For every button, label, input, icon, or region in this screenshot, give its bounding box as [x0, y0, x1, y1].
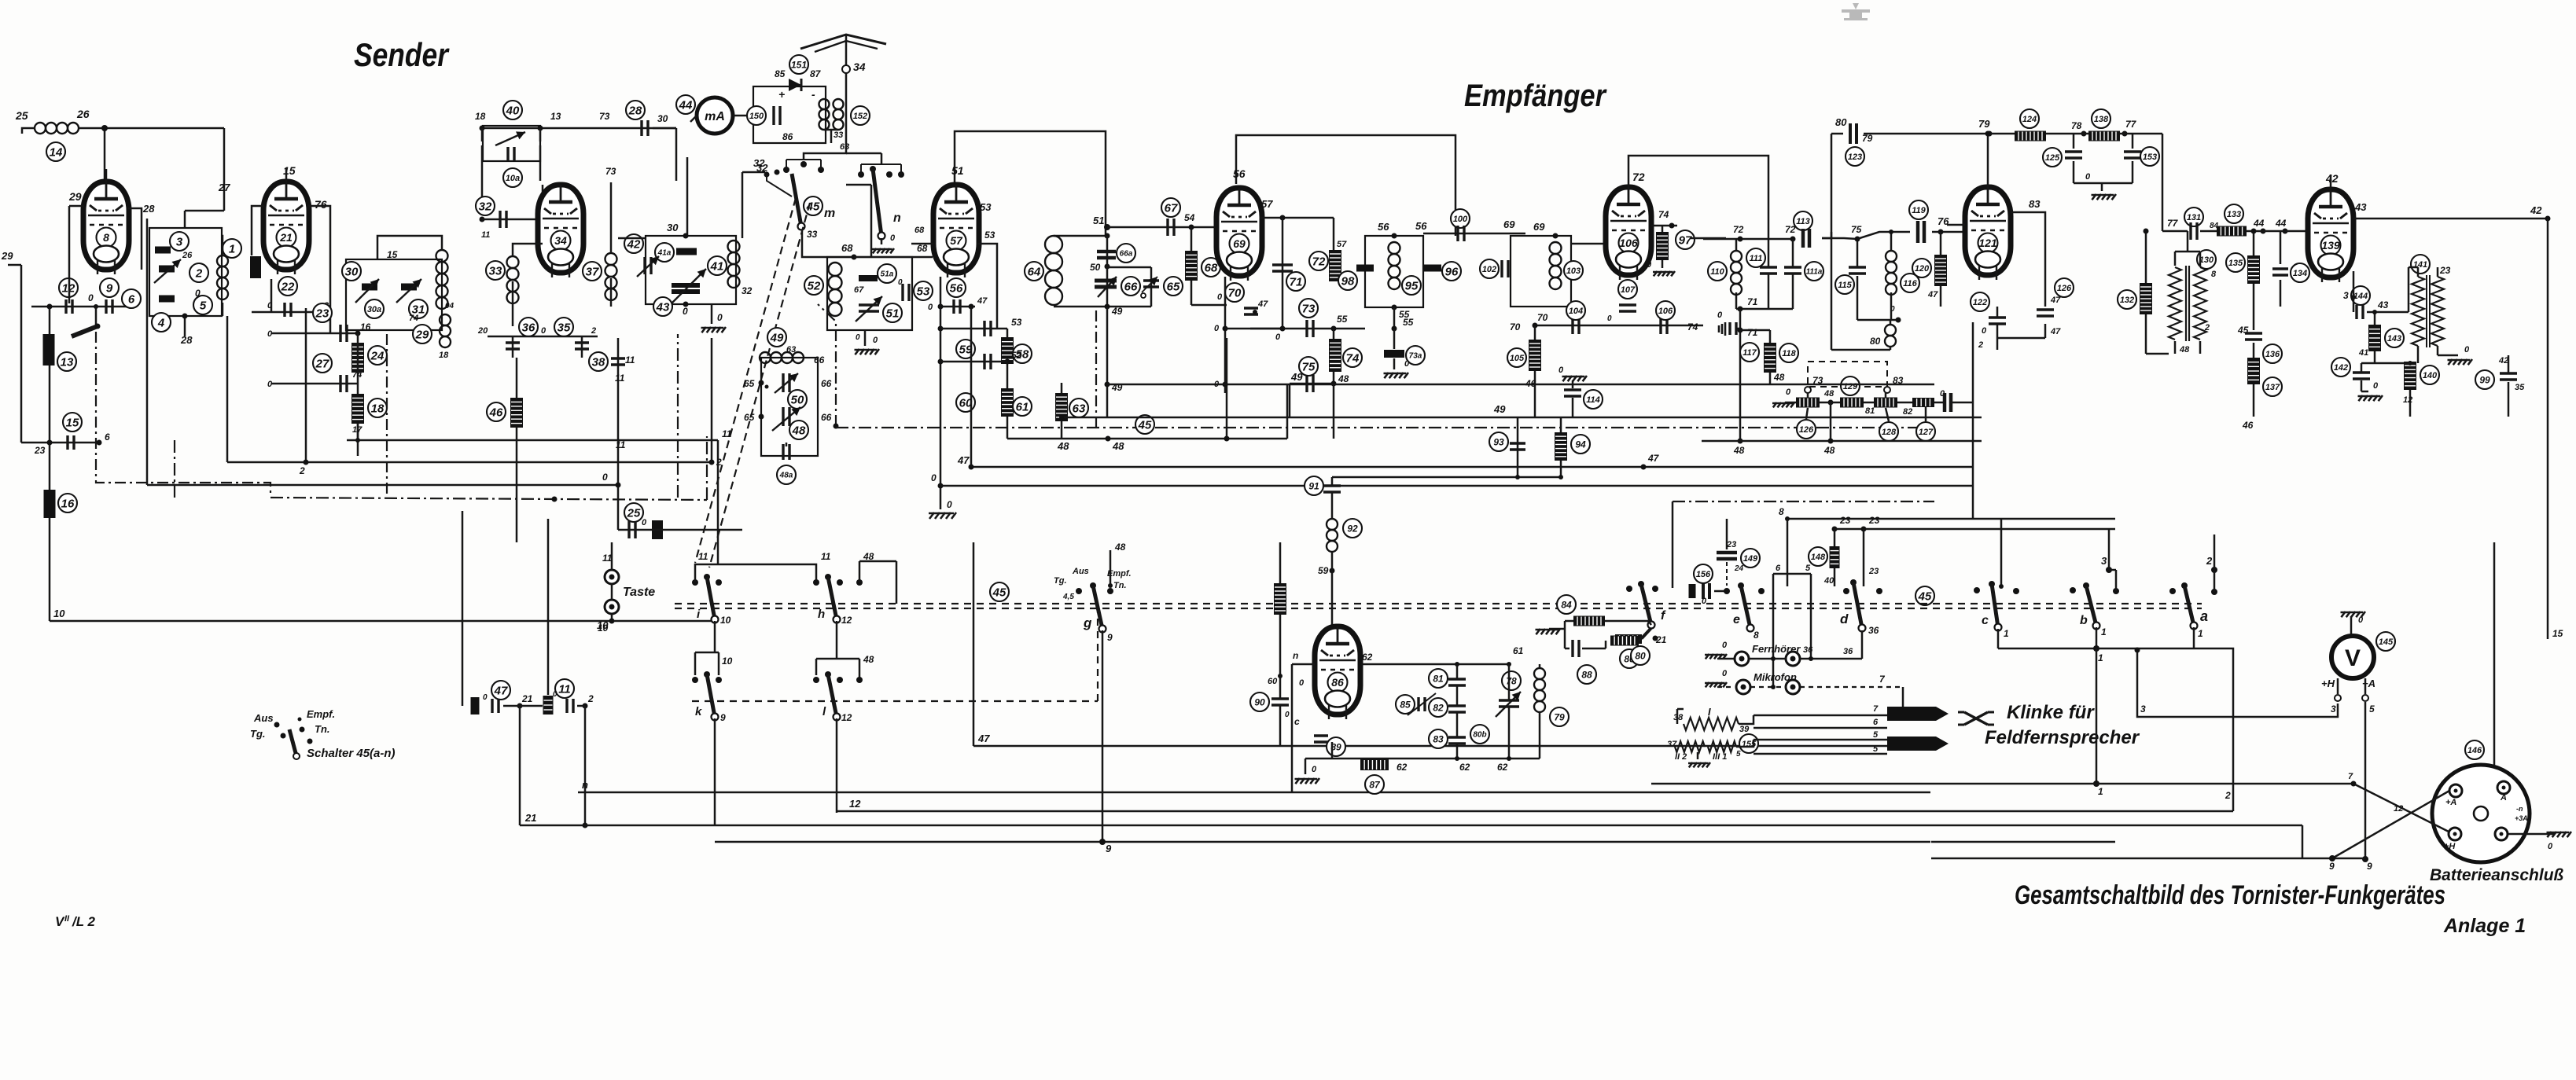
svg-text:12: 12	[841, 712, 852, 723]
svg-text:Aus: Aus	[1072, 567, 1089, 576]
svg-text:84: 84	[2210, 222, 2219, 230]
label 69	[1503, 219, 1515, 230]
wire 2a top	[2214, 534, 2216, 542]
capacitor 5	[159, 296, 212, 315]
wire	[1260, 215, 1334, 221]
svg-text:66: 66	[814, 354, 825, 366]
wire 0 bus	[931, 472, 1973, 486]
capacitor 48a	[777, 444, 796, 484]
node 34 ant	[842, 61, 866, 73]
svg-text:50: 50	[791, 393, 804, 406]
svg-text:103: 103	[1566, 266, 1581, 276]
tube 8	[83, 182, 129, 274]
battery ground	[2508, 832, 2571, 851]
circled 145	[2376, 632, 2395, 651]
svg-text:111: 111	[1750, 254, 1763, 263]
resistor 140	[2375, 361, 2439, 417]
label 28	[142, 203, 155, 215]
wire loop57	[955, 131, 1106, 236]
svg-text:117: 117	[1742, 348, 1757, 358]
svg-text:5: 5	[1873, 744, 1879, 754]
wire line 11	[347, 423, 732, 564]
svg-text:11: 11	[722, 428, 732, 439]
svg-text:142: 142	[2334, 363, 2348, 373]
capacitor 126b	[2037, 278, 2074, 336]
ground 73a	[1384, 359, 1411, 378]
wire f link	[1648, 621, 1651, 625]
svg-text:12: 12	[841, 615, 852, 626]
svg-text:5: 5	[1736, 750, 1741, 759]
svg-text:8: 8	[103, 231, 109, 244]
svg-text:53: 53	[980, 201, 992, 213]
box 51	[827, 257, 912, 330]
switch k	[692, 671, 726, 723]
dash-dot bus	[175, 334, 707, 502]
label 51b	[1105, 304, 1123, 417]
svg-text:k: k	[695, 705, 702, 718]
svg-text:+3A: +3A	[2515, 814, 2528, 822]
wire	[767, 174, 881, 244]
svg-text:0: 0	[1702, 597, 1707, 606]
capacitor 93	[1489, 432, 1525, 451]
capacitor 59	[940, 317, 1022, 358]
box tuner 41	[646, 236, 736, 304]
svg-text:69: 69	[1233, 237, 1246, 250]
capacitor 142	[2331, 358, 2375, 391]
resistor 80l	[1612, 629, 1651, 668]
svg-text:126: 126	[1799, 425, 1814, 435]
label 17	[352, 370, 362, 435]
wire	[618, 338, 635, 397]
svg-text:7: 7	[2348, 772, 2353, 781]
svg-text:92: 92	[1347, 523, 1358, 534]
wire	[31, 304, 133, 310]
capacitor row end	[1934, 389, 1972, 412]
capacitor 28	[642, 113, 668, 136]
label 74	[409, 302, 454, 323]
svg-text:0: 0	[1722, 641, 1728, 650]
plug X	[1958, 712, 1994, 725]
svg-text:53: 53	[984, 230, 995, 241]
capacitor 122	[1971, 292, 2006, 338]
svg-text:132: 132	[2120, 296, 2134, 305]
wire	[617, 397, 620, 530]
transformer 152	[819, 99, 870, 130]
svg-text:10: 10	[598, 623, 609, 634]
switch g	[1076, 582, 1113, 643]
capacitor 65	[1141, 277, 1183, 298]
ground 97	[1647, 260, 1675, 276]
circled 99	[2475, 355, 2525, 417]
svg-text:8: 8	[2211, 270, 2217, 279]
svg-text:97: 97	[1679, 233, 1692, 247]
svg-text:23: 23	[2439, 265, 2451, 276]
wire 42 right	[2353, 204, 2551, 222]
svg-text:45: 45	[806, 200, 820, 213]
svg-text:114: 114	[1586, 395, 1600, 405]
capacitor 150	[747, 106, 793, 142]
wire	[223, 128, 226, 211]
svg-text:78: 78	[2071, 120, 2082, 131]
capacitor 153	[2124, 134, 2159, 183]
resistor 135	[2226, 229, 2260, 331]
svg-text:10: 10	[720, 615, 731, 626]
svg-text:74: 74	[1687, 321, 1698, 332]
label 0 2	[1978, 326, 1987, 350]
svg-text:III 1: III 1	[1713, 752, 1727, 762]
capacitor 2 variable	[154, 259, 208, 283]
svg-text:133: 133	[2227, 210, 2241, 219]
svg-text:3: 3	[2101, 555, 2107, 567]
svg-text:Aus: Aus	[253, 712, 274, 724]
inductor 92	[1327, 492, 1362, 552]
svg-text:11: 11	[602, 553, 613, 564]
svg-text:22: 22	[281, 280, 295, 293]
svg-text:35: 35	[2515, 383, 2525, 392]
label 83t	[2011, 198, 2045, 307]
tube 34	[538, 185, 583, 277]
capacitor 25	[618, 503, 742, 539]
circled 49	[767, 328, 786, 347]
diagonal +A	[2332, 791, 2449, 858]
wire	[462, 511, 548, 706]
wire row	[252, 301, 330, 312]
svg-text:67: 67	[1165, 201, 1178, 215]
dash-dot keyline	[96, 332, 270, 497]
wire 8 vert	[1726, 519, 1728, 524]
svg-text:1: 1	[2004, 628, 2009, 639]
svg-text:96: 96	[1445, 265, 1459, 278]
svg-text:87: 87	[1369, 779, 1381, 790]
ground fern	[1705, 641, 1735, 659]
inductor osc	[436, 250, 448, 309]
svg-text:Tn.: Tn.	[315, 723, 330, 735]
svg-text:43: 43	[2377, 299, 2389, 310]
label 18	[475, 111, 610, 122]
svg-text:38: 38	[592, 355, 605, 369]
wire g down	[1102, 630, 1104, 840]
box e	[1773, 564, 1811, 687]
battery pin +A	[2445, 784, 2462, 807]
wire	[128, 208, 147, 485]
wire meter	[690, 116, 753, 122]
label 29	[68, 190, 82, 203]
svg-text:A: A	[2500, 793, 2507, 803]
capacitor 47	[471, 681, 511, 714]
capacitor 111	[1746, 239, 1777, 309]
resistor 16	[44, 490, 56, 518]
svg-text:124: 124	[2022, 115, 2037, 124]
svg-text:75: 75	[1302, 360, 1316, 373]
svg-text:50: 50	[1090, 262, 1101, 273]
svg-text:2: 2	[299, 465, 305, 476]
svg-text:18: 18	[439, 351, 449, 360]
label 27	[218, 182, 230, 193]
svg-text:85: 85	[775, 68, 786, 79]
capacitor 43 variable	[653, 269, 706, 316]
svg-text:56: 56	[1378, 221, 1389, 233]
dash-dot drop 64	[1095, 310, 1097, 428]
resistor 80m	[1610, 629, 1650, 665]
svg-text:23: 23	[315, 307, 329, 320]
label 53t	[911, 201, 992, 244]
battery pin A	[2497, 781, 2510, 803]
svg-text:32: 32	[479, 200, 492, 213]
svg-text:146: 146	[2467, 746, 2482, 755]
svg-text:55: 55	[1403, 317, 1414, 328]
transformer 155 I	[1673, 706, 1750, 734]
svg-text:81: 81	[1433, 673, 1444, 684]
circled 22	[278, 277, 297, 296]
svg-text:-n: -n	[2516, 805, 2523, 813]
jack mikro 2	[1750, 680, 1800, 694]
circled 13	[57, 352, 76, 371]
contact 5	[2362, 678, 2375, 714]
svg-text:0: 0	[1312, 765, 1317, 774]
svg-text:47: 47	[977, 296, 988, 306]
node 32 top	[742, 157, 780, 238]
svg-text:66: 66	[1124, 280, 1138, 293]
stamp eagle	[1842, 3, 1870, 20]
ground 86	[1295, 759, 1320, 784]
svg-text:Empf.: Empf.	[307, 708, 335, 720]
svg-text:62: 62	[1362, 652, 1373, 663]
svg-text:56: 56	[950, 281, 963, 295]
svg-text:11: 11	[625, 354, 635, 366]
wire	[377, 236, 442, 259]
svg-text:118: 118	[1782, 349, 1796, 358]
tube 121	[1965, 187, 2011, 280]
svg-text:48: 48	[1823, 445, 1835, 456]
svg-text:139: 139	[2321, 239, 2340, 252]
circled 35	[554, 318, 589, 349]
svg-text:66: 66	[821, 412, 832, 423]
contact 3	[2331, 678, 2341, 714]
label 52	[0, 0, 1, 1]
switch d	[1840, 579, 1882, 636]
label 57t	[1261, 198, 1273, 210]
svg-text:48: 48	[1733, 445, 1745, 456]
svg-text:11: 11	[615, 373, 625, 384]
svg-text:+A: +A	[2362, 678, 2375, 689]
svg-text:57: 57	[950, 234, 963, 247]
ground row	[1772, 388, 1796, 407]
wire	[68, 206, 71, 303]
circled 23	[313, 303, 332, 322]
svg-text:83: 83	[1433, 733, 1444, 744]
svg-text:48: 48	[1823, 389, 1834, 399]
wire	[516, 358, 518, 542]
wire grid 8	[105, 169, 108, 182]
wire	[653, 128, 676, 181]
resistor 120	[1912, 232, 1947, 307]
ground mikro	[1705, 669, 1735, 687]
svg-text:73: 73	[605, 166, 616, 177]
svg-text:71: 71	[1747, 296, 1758, 307]
resistor 117	[1740, 330, 1776, 384]
circled 144	[2343, 271, 2370, 312]
inductor 116	[1831, 230, 1919, 295]
capacitor 96	[1424, 262, 1461, 281]
circled 28t	[626, 101, 645, 119]
bus 48r	[1702, 439, 1982, 444]
inductor 33	[486, 256, 519, 303]
svg-text:48: 48	[1114, 542, 1126, 553]
svg-text:Tg.: Tg.	[250, 728, 266, 740]
circled 15	[63, 413, 82, 432]
svg-text:1: 1	[2098, 786, 2103, 797]
svg-text:79: 79	[1978, 118, 1990, 130]
wire l down	[836, 718, 838, 813]
wire 0 r	[1934, 466, 1973, 468]
svg-text:49: 49	[1111, 306, 1123, 317]
svg-text:121: 121	[1978, 237, 1997, 249]
svg-text:e: e	[1733, 613, 1740, 626]
title anlage	[2443, 915, 2526, 937]
svg-text:0: 0	[1717, 310, 1723, 320]
node 59	[1318, 552, 1335, 626]
svg-text:0: 0	[1607, 314, 1612, 323]
sheet number	[55, 914, 96, 929]
wire right v	[2548, 542, 2563, 639]
tube 139	[2308, 189, 2353, 282]
svg-text:0: 0	[642, 518, 647, 527]
box grid block	[149, 228, 222, 316]
svg-text:c: c	[1982, 614, 1989, 627]
resistor 128r	[1874, 393, 1912, 441]
svg-text:71: 71	[1290, 275, 1303, 288]
ground 155	[1688, 752, 1710, 767]
svg-text:27: 27	[315, 357, 329, 370]
resistor 46h	[487, 398, 523, 428]
svg-text:68: 68	[1205, 261, 1218, 274]
resistor 118	[1779, 343, 1798, 362]
svg-text:71: 71	[1747, 327, 1758, 338]
svg-text:Tn.: Tn.	[1113, 581, 1127, 590]
circled 6	[122, 289, 141, 308]
svg-text:107: 107	[1621, 285, 1636, 295]
capacitor 100	[1423, 209, 1525, 241]
svg-text:3: 3	[2140, 703, 2146, 714]
capacitor 15	[68, 435, 74, 450]
svg-text:+A: +A	[2445, 798, 2456, 807]
svg-text:99: 99	[2479, 374, 2490, 385]
bus 12	[837, 798, 2233, 811]
resistor 148	[1809, 515, 1851, 586]
svg-text:29: 29	[68, 190, 82, 203]
labels g	[1054, 567, 1132, 601]
svg-text:53: 53	[917, 285, 930, 298]
tube 86	[1315, 626, 1360, 719]
wire	[267, 380, 358, 389]
circled 10a	[503, 168, 522, 187]
inductor 52	[804, 263, 842, 316]
wire 11 bracket	[695, 551, 831, 582]
svg-text:0: 0	[1558, 366, 1564, 375]
capacitor 115	[1835, 224, 1866, 294]
label 44	[2247, 218, 2308, 234]
svg-text:2: 2	[587, 693, 594, 704]
svg-text:119: 119	[1912, 206, 1926, 215]
wire 23	[1834, 515, 2115, 586]
svg-text:23: 23	[1868, 567, 1879, 576]
svg-text:Schalter 45(a-n): Schalter 45(a-n)	[307, 747, 396, 760]
svg-text:15: 15	[283, 164, 296, 177]
svg-text:15: 15	[66, 416, 79, 429]
svg-text:0: 0	[267, 380, 273, 389]
svg-text:52: 52	[808, 279, 821, 292]
svg-text:47: 47	[1647, 453, 1660, 464]
svg-text:48: 48	[1773, 372, 1785, 383]
svg-text:0: 0	[1299, 678, 1305, 688]
svg-text:2: 2	[2206, 555, 2213, 567]
resistor 129	[1840, 377, 1875, 416]
node 55	[1392, 305, 1414, 332]
node 21c	[503, 693, 543, 709]
wire 7 mikro	[1771, 674, 1903, 715]
plug 2	[1887, 737, 1949, 751]
svg-text:69: 69	[1503, 219, 1515, 230]
svg-text:0: 0	[856, 333, 860, 342]
svg-text:0: 0	[2085, 172, 2091, 182]
svg-text:Anlage 1: Anlage 1	[2443, 915, 2526, 937]
svg-text:130: 130	[2199, 255, 2214, 265]
label 68	[841, 242, 933, 257]
svg-text:120: 120	[1915, 264, 1930, 274]
svg-text:0: 0	[947, 499, 952, 510]
wire	[977, 230, 997, 329]
wire 42 vert	[2547, 219, 2549, 542]
vertical 2509	[1972, 322, 1974, 519]
label 43t	[2354, 201, 2367, 213]
circled 12	[59, 278, 78, 297]
ground	[701, 304, 727, 332]
wire 49 bus	[1059, 403, 1982, 420]
svg-text:36: 36	[1803, 645, 1813, 655]
switch n	[858, 164, 904, 240]
svg-text:13: 13	[61, 355, 74, 369]
svg-text:0: 0	[195, 288, 201, 299]
svg-text:0: 0	[1217, 292, 1223, 302]
capacitor 31 variable	[396, 279, 428, 318]
svg-text:2: 2	[195, 266, 203, 280]
svg-text:115: 115	[1838, 281, 1852, 290]
wire taste	[598, 542, 615, 634]
dash-dot bus 45mid	[836, 427, 1925, 428]
circled 16	[58, 494, 77, 512]
wire row 106	[1566, 301, 1703, 334]
capacitor 119	[1909, 200, 1965, 243]
wire row 59	[1225, 328, 1282, 330]
svg-text:136: 136	[2265, 350, 2280, 359]
svg-text:0: 0	[1275, 332, 1281, 342]
svg-text:82: 82	[1433, 702, 1444, 713]
wire 64 frame	[1054, 215, 1110, 307]
wire 75	[1822, 232, 1910, 239]
circled 38	[589, 352, 625, 371]
label 7 12	[2348, 772, 2403, 814]
bus 9	[715, 839, 1930, 854]
svg-text:52: 52	[1011, 350, 1022, 361]
capacitor 42 variable	[624, 234, 659, 277]
svg-text:23: 23	[1839, 515, 1851, 526]
svg-text:156: 156	[1696, 570, 1711, 579]
svg-text:Sender: Sender	[354, 36, 450, 73]
svg-text:0: 0	[1982, 326, 1987, 336]
wire	[267, 321, 371, 339]
capacitor 80t	[1835, 116, 1873, 166]
node 48r	[1820, 389, 1840, 406]
